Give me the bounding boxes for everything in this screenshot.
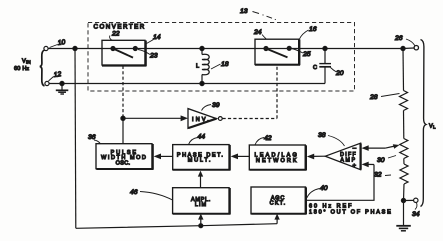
svg-text:14: 14 bbox=[153, 34, 161, 41]
svg-text:26: 26 bbox=[394, 35, 403, 42]
svg-text:25: 25 bbox=[302, 51, 311, 58]
switch S14 box bbox=[102, 40, 147, 66]
label 13 with dash-dot leader bbox=[240, 8, 276, 20]
label 30 bbox=[377, 156, 396, 165]
op-amp U39 INV triangle bbox=[188, 109, 222, 129]
block 46 AMPL LIM bbox=[173, 188, 231, 215]
svg-text:39: 39 bbox=[212, 102, 220, 109]
label INV. bbox=[192, 117, 211, 123]
brace for Vin source bbox=[40, 50, 45, 86]
svg-text:NETWORK: NETWORK bbox=[256, 158, 299, 164]
svg-text:24: 24 bbox=[253, 29, 262, 36]
node: inductor top junction bbox=[200, 46, 204, 50]
block 40 AGC CKT bbox=[251, 187, 307, 214]
svg-text:28: 28 bbox=[369, 94, 378, 101]
dashed control line from switch S14 bbox=[122, 66, 124, 116]
wire+arrow: PWM node to INV input bbox=[123, 115, 188, 121]
svg-text:L: L bbox=[196, 64, 199, 70]
svg-text:40: 40 bbox=[320, 185, 328, 192]
wire+arrow: PHASE DET to PWM bbox=[154, 154, 173, 160]
wire: R32 to bottom node bbox=[401, 184, 405, 203]
svg-text:16: 16 bbox=[309, 26, 317, 33]
resistor R28 bbox=[400, 91, 408, 111]
capacitor C20 bbox=[319, 49, 331, 84]
brace VL (right measurement bracket) bbox=[421, 40, 427, 207]
wire: R28 to pot R30 bbox=[403, 111, 405, 139]
label 46 bbox=[130, 189, 173, 200]
switch S16 box bbox=[255, 39, 300, 65]
wire: node 26 down to resistor chain bbox=[402, 49, 405, 91]
inductor L18 bbox=[200, 49, 209, 86]
label 60 Hz REF 180 OUT OF PHASE bbox=[309, 204, 393, 216]
label 38 bbox=[318, 132, 345, 146]
wire+arrow: feedback up into AMPL LIM bbox=[198, 214, 203, 226]
node 26 junction bbox=[401, 46, 405, 50]
switch S16 contacts and arm bbox=[264, 46, 291, 57]
block 42 LEAD/LAG NETWORK bbox=[249, 145, 306, 170]
svg-text:OSC.: OSC. bbox=[116, 160, 131, 166]
wire+arrow: feedback up into AGC CKT bbox=[274, 214, 279, 224]
label 44 bbox=[189, 134, 206, 145]
svg-text:22: 22 bbox=[111, 31, 120, 38]
svg-text:60 Hz: 60 Hz bbox=[14, 66, 30, 72]
label 24 bbox=[253, 29, 267, 39]
label 18 bbox=[211, 61, 229, 69]
label CONVERTER bbox=[94, 24, 146, 31]
svg-text:LIM: LIM bbox=[195, 202, 207, 208]
label 22 bbox=[110, 31, 120, 41]
terminal 10 bbox=[44, 39, 66, 51]
svg-text:32: 32 bbox=[374, 172, 382, 179]
label VL bbox=[429, 124, 436, 130]
svg-text:+: + bbox=[353, 164, 357, 170]
ground (right) bbox=[396, 201, 411, 231]
svg-text:C: C bbox=[313, 65, 317, 71]
op-amp U38 DIFF AMP triangle bbox=[325, 143, 360, 170]
wire+arrow: plus input from 60Hz ref line bbox=[306, 162, 374, 201]
wire+arrow: AMPL LIM up into PHASE DET bbox=[198, 171, 203, 188]
label L bbox=[196, 64, 199, 70]
terminal 34 bbox=[404, 198, 420, 218]
svg-text:CKT.: CKT. bbox=[270, 201, 287, 207]
svg-text:38: 38 bbox=[318, 132, 326, 139]
node: PWM output junction bbox=[121, 115, 125, 144]
wire+arrow: DIFF AMP to LEAD/LAG bbox=[307, 154, 326, 160]
svg-text:44: 44 bbox=[198, 134, 206, 141]
label 25 bbox=[292, 49, 311, 59]
svg-text:46: 46 bbox=[130, 189, 138, 196]
label C bbox=[313, 65, 317, 71]
label 20 bbox=[331, 68, 344, 78]
svg-text:23: 23 bbox=[149, 53, 158, 60]
wire+arrow: minus input from pot wiper bbox=[362, 144, 400, 151]
terminal 26 bbox=[394, 35, 418, 50]
block 36 PULSE WIDTH MOD OSC bbox=[96, 144, 154, 170]
terminal 12 bbox=[45, 71, 62, 86]
svg-text:CONVERTER: CONVERTER bbox=[94, 24, 146, 31]
svg-text:13: 13 bbox=[240, 8, 248, 15]
resistor R32 bbox=[400, 164, 408, 184]
svg-text:30: 30 bbox=[377, 157, 385, 164]
potentiometer R30 bbox=[400, 139, 408, 159]
converter dashed box bbox=[88, 23, 355, 92]
wire: left feedback line down and along bottom bbox=[75, 49, 277, 229]
svg-text:INV.: INV. bbox=[192, 117, 211, 123]
block 44 PHASE DET MULT bbox=[173, 145, 231, 171]
node: capacitor top junction bbox=[323, 46, 327, 50]
label Vin 60 Hz bbox=[14, 59, 31, 73]
svg-text:18: 18 bbox=[221, 61, 229, 68]
label 14 bbox=[147, 34, 161, 44]
node: junction top wire / left feedback bbox=[73, 46, 77, 50]
dashed line: INV output to switch S16 control bbox=[223, 65, 278, 118]
svg-text:20: 20 bbox=[335, 70, 344, 77]
label 40 bbox=[307, 185, 328, 198]
ground (left, on bottom AC line) bbox=[56, 81, 69, 94]
label 23 bbox=[138, 50, 158, 60]
wire: bottom AC line from terminal 12 to capacitor bbox=[49, 83, 325, 85]
svg-text:10: 10 bbox=[57, 39, 66, 47]
wire+arrow: LEAD/LAG to PHASE DET bbox=[231, 154, 250, 160]
node: feedback junction under AMPL LIM bbox=[199, 224, 203, 228]
wire: top AC line from terminal 10 to node 26 bbox=[48, 48, 403, 50]
label 39 bbox=[202, 102, 220, 111]
svg-text:34: 34 bbox=[412, 211, 420, 218]
svg-text:42: 42 bbox=[264, 135, 272, 142]
label 16 bbox=[299, 26, 316, 39]
svg-text:180° OUT OF PHASE: 180° OUT OF PHASE bbox=[309, 210, 393, 216]
label 32 bbox=[374, 172, 391, 179]
svg-text:–: – bbox=[353, 146, 357, 152]
svg-text:VIN: VIN bbox=[22, 59, 31, 65]
switch S14 contacts and arm bbox=[111, 47, 137, 58]
wire: R30 to R32 bbox=[403, 159, 405, 165]
svg-text:12: 12 bbox=[53, 71, 62, 79]
label 28 bbox=[369, 94, 400, 102]
svg-text:VL: VL bbox=[429, 124, 436, 130]
label 36 bbox=[88, 134, 101, 144]
label 42 bbox=[255, 135, 272, 145]
svg-text:MULT.: MULT. bbox=[188, 158, 212, 164]
